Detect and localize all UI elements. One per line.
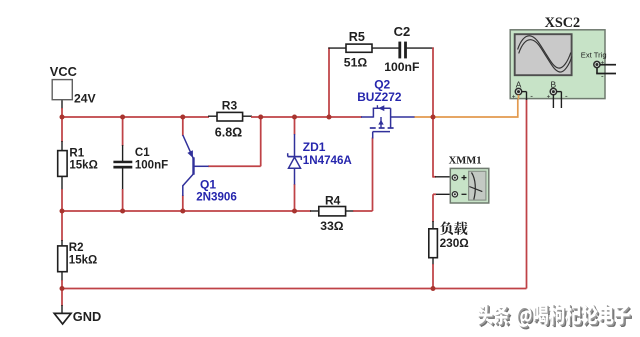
svg-text:BUZ272: BUZ272 [357,90,402,104]
svg-text:R5: R5 [349,30,365,44]
svg-text:Ext Trig: Ext Trig [581,51,607,60]
svg-text:15kΩ: 15kΩ [69,159,97,171]
svg-text:R4: R4 [325,194,341,208]
svg-text:6.8Ω: 6.8Ω [215,126,242,140]
svg-text:R3: R3 [222,98,238,112]
svg-text:C1: C1 [135,147,150,159]
svg-text:XSC2: XSC2 [545,15,580,31]
svg-text:R1: R1 [69,147,84,159]
svg-text:R2: R2 [69,242,84,254]
svg-text:+: + [547,93,551,100]
svg-text:33Ω: 33Ω [320,219,344,233]
svg-text:C2: C2 [394,24,411,39]
svg-text:15kΩ: 15kΩ [69,254,97,266]
svg-text:100nF: 100nF [135,159,168,171]
svg-text:-: - [530,92,533,101]
svg-text:GND: GND [73,309,101,324]
svg-text:Q1: Q1 [200,177,216,191]
svg-text:2N3906: 2N3906 [196,190,237,203]
svg-text:VCC: VCC [50,64,77,79]
svg-text:100nF: 100nF [384,60,419,74]
svg-text:ZD1: ZD1 [303,140,326,154]
svg-text:230Ω: 230Ω [440,236,469,250]
svg-text:-: - [565,92,568,101]
svg-text:24V: 24V [74,92,97,106]
svg-text:+: + [512,93,516,100]
svg-text:51Ω: 51Ω [344,56,368,70]
svg-text:XMM1: XMM1 [449,156,482,167]
svg-text:1N4746A: 1N4746A [303,154,353,167]
